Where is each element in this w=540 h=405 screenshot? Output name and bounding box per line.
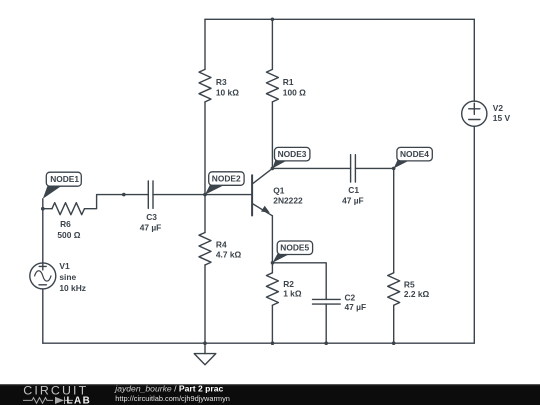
svg-text:Q1: Q1 — [273, 186, 285, 196]
svg-text:NODE3: NODE3 — [278, 149, 307, 159]
voltage source V1 — [30, 263, 56, 289]
svg-text:R2: R2 — [283, 279, 294, 289]
wire V2 top — [473, 19, 475, 101]
wire R5 bottom — [393, 305, 395, 343]
svg-text:NODE1: NODE1 — [50, 174, 79, 184]
svg-text:NODE4: NODE4 — [400, 149, 429, 159]
junction NODE4 — [392, 167, 396, 171]
svg-text:R5: R5 — [404, 280, 415, 290]
capacitor C3 — [148, 181, 153, 209]
svg-text:R1: R1 — [283, 77, 294, 87]
wire R6 to C3 — [85, 195, 149, 209]
svg-text:47 µF: 47 µF — [140, 223, 162, 233]
svg-text:V2: V2 — [493, 103, 504, 113]
wire R1 top lead — [271, 19, 273, 69]
svg-text:C1: C1 — [348, 185, 359, 195]
wire NODE5 to R2 — [271, 263, 273, 273]
resistor R3 — [199, 69, 211, 102]
svg-text:V1: V1 — [59, 261, 70, 271]
wire C1 to NODE4 — [355, 167, 393, 169]
transistor Q1 — [251, 175, 253, 215]
node NODE3 flag — [272, 147, 310, 168]
resistor R5 — [388, 273, 400, 305]
svg-text:C3: C3 — [146, 212, 157, 222]
node NODE1 flag — [43, 172, 82, 199]
svg-text:15 V: 15 V — [493, 113, 511, 123]
svg-text:47 µF: 47 µF — [345, 302, 367, 312]
junction V1 R6 — [41, 207, 45, 211]
svg-text:2N2222: 2N2222 — [273, 195, 303, 205]
resistor R6 — [52, 203, 85, 215]
node NODE4 flag — [394, 147, 433, 168]
wire V1 to NODE1 — [42, 199, 44, 263]
svg-text:http://circuitlab.com/cjh9djyw: http://circuitlab.com/cjh9djywarmyn — [115, 394, 230, 403]
wire C2 bottom — [325, 304, 327, 343]
wire R3 top lead — [204, 19, 206, 69]
svg-text:sine: sine — [59, 272, 76, 282]
svg-text:NODE2: NODE2 — [212, 174, 241, 184]
wire NODE4 to R5 — [393, 168, 395, 272]
resistor R4 — [199, 233, 211, 265]
resistor R1 — [266, 69, 278, 102]
wire top rail — [205, 18, 474, 20]
svg-text:47 µF: 47 µF — [342, 195, 364, 205]
svg-text:LAB: LAB — [67, 395, 92, 405]
svg-text:500 Ω: 500 Ω — [57, 230, 80, 240]
junction R2 rail — [271, 341, 275, 345]
logo squiggle resistor diode — [23, 397, 73, 404]
wire NODE2 to base — [205, 194, 251, 196]
svg-text:C2: C2 — [345, 292, 356, 302]
ground — [204, 343, 206, 353]
node NODE5 flag — [273, 241, 313, 263]
svg-text:R4: R4 — [216, 239, 227, 249]
svg-text:jayden_bourke / Part 2 prac: jayden_bourke / Part 2 prac — [114, 383, 223, 393]
wire C3 to NODE2 — [153, 194, 205, 196]
junction R5 rail — [392, 341, 396, 345]
svg-text:R3: R3 — [216, 77, 227, 87]
svg-text:10 kΩ: 10 kΩ — [216, 87, 239, 97]
svg-text:NODE5: NODE5 — [280, 243, 309, 253]
svg-text:R6: R6 — [60, 219, 71, 229]
junction C2 rail — [324, 341, 328, 345]
wire V1 bottom — [42, 289, 44, 343]
junction top rail R1 — [271, 18, 275, 22]
svg-text:4.7 kΩ: 4.7 kΩ — [216, 250, 242, 260]
footer bar — [0, 384, 540, 405]
svg-text:100 Ω: 100 Ω — [283, 87, 306, 97]
wire R2 bottom — [271, 305, 273, 343]
transistor Q1 emitter arrow — [261, 206, 270, 213]
node NODE2 flag — [205, 172, 244, 195]
junction NODE3 — [271, 167, 275, 171]
wire V2 bottom — [473, 126, 475, 343]
svg-text:10 kHz: 10 kHz — [59, 283, 86, 293]
wire NODE2 to R4 — [204, 195, 206, 233]
wire R6 left lead — [43, 208, 52, 210]
wire NODE5 to C2 branch — [273, 263, 327, 300]
junction ground rail — [203, 341, 207, 345]
wire R1 bottom to NODE3 — [271, 102, 273, 168]
svg-text:1 kΩ: 1 kΩ — [283, 289, 302, 299]
wire R4 bottom to rail — [204, 265, 206, 343]
capacitor C1 — [351, 155, 356, 182]
junction C3 input wire — [122, 193, 126, 197]
junction NODE5 — [271, 261, 275, 265]
wire R3 bottom to NODE2 — [204, 102, 206, 195]
wire emitter down to NODE5 — [271, 216, 273, 263]
resistor R2 — [266, 273, 278, 305]
wire bottom rail — [43, 342, 475, 344]
junction NODE2 — [203, 193, 207, 197]
svg-text:2.2 kΩ: 2.2 kΩ — [404, 289, 430, 299]
capacitor C2 — [313, 299, 341, 304]
wire NODE3 to C1 — [272, 167, 350, 169]
voltage source V2 — [462, 101, 487, 126]
